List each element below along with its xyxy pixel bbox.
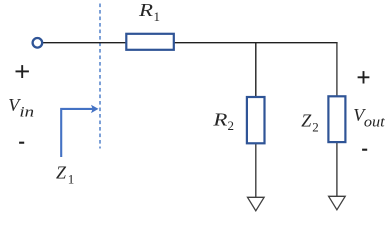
resistor R2 body [247,97,265,143]
label plus Vin [16,65,29,78]
svg-text:Z2: Z2 [301,111,319,135]
input terminal circle [33,38,43,48]
label minus Vout [362,149,367,151]
svg-text:Vout: Vout [353,105,385,131]
node Z1 boundary dashed line [99,4,101,149]
ground under R2 [248,197,265,211]
wire Z2 bottom to ground [336,143,338,196]
wire R1 to Z2 branch corner [174,42,338,44]
wire R2 bottom to ground [255,144,257,197]
impedance Z2 body [328,96,345,142]
label minus Vin [19,142,24,144]
svg-text:Vin: Vin [8,95,34,121]
label plus Vout [358,71,370,83]
wire corner to Z2 top [336,43,338,96]
resistor R1 body [126,34,174,50]
Z1 impedance arrow shaft [61,109,92,157]
svg-text:R: R [138,0,153,20]
svg-text:2: 2 [228,118,235,133]
wire input terminal to R1 [43,42,127,44]
svg-text:Z1: Z1 [56,163,74,187]
ground under Z2 [329,196,346,210]
Z1 arrowhead [91,105,99,113]
svg-text:1: 1 [154,9,161,24]
svg-text:R: R [212,109,227,129]
wire junction to R2 top [255,43,257,97]
